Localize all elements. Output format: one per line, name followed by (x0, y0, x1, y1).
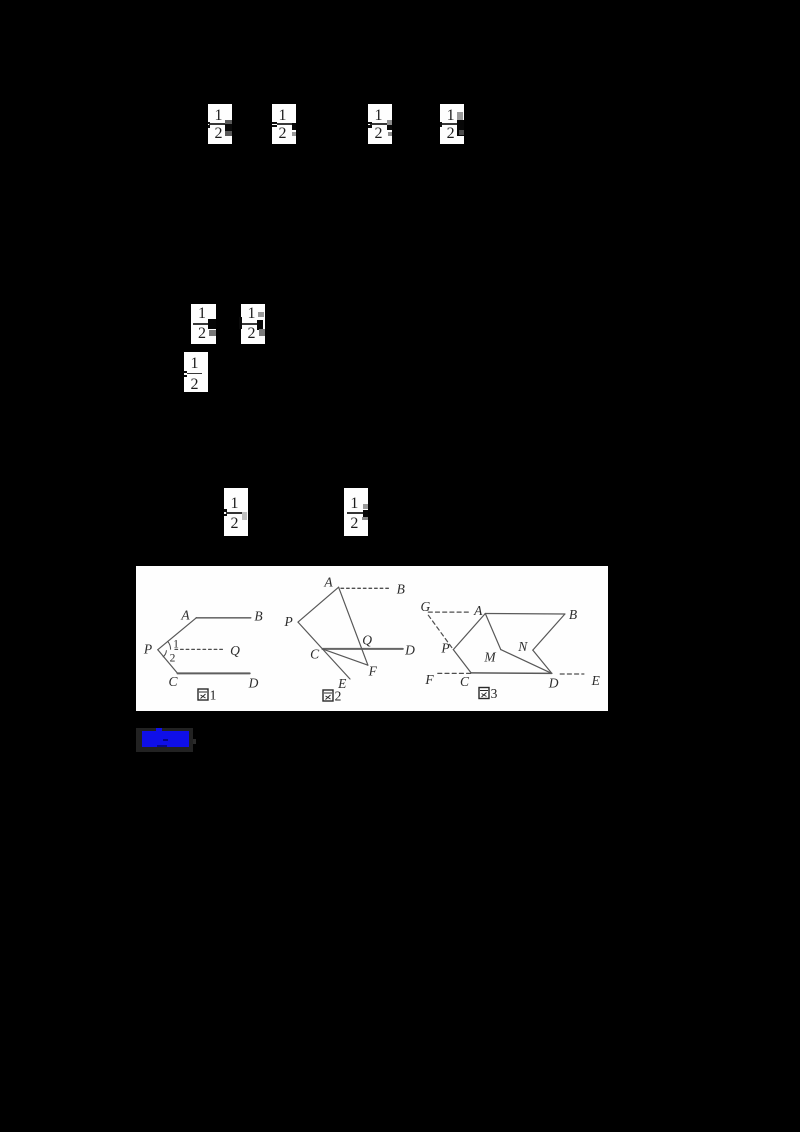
svg-text:F: F (424, 672, 434, 687)
fraction 1/2 box 2 (row 1) (272, 104, 296, 144)
fraction 1/2 box C (row 2, lower) (184, 352, 208, 393)
fig3 line A-M (485, 614, 501, 650)
fig3 line A-B (485, 613, 565, 616)
fig2 dashed A-B (341, 587, 391, 589)
glyph fragment right of box A (208, 319, 216, 329)
fraction 1/2 box 1 (row 1) (208, 104, 232, 144)
white figure panel (136, 566, 608, 711)
grey patch right of bar box D (242, 512, 247, 520)
equals fragment on box 3 left edge (368, 122, 372, 124)
svg-text:D: D (548, 676, 559, 691)
fig1 line A-P (158, 618, 197, 650)
fig2 line C-F (322, 649, 368, 665)
svg-text:P: P (283, 614, 292, 629)
fraction 1/2 box D (row 3) (224, 488, 248, 536)
equals fragment on box D left edge (224, 509, 227, 512)
svg-text:G: G (421, 599, 431, 614)
fig2 line C-E (322, 649, 350, 679)
fig2 line C-D (322, 648, 402, 650)
svg-text:B: B (254, 609, 262, 624)
glyph fragments right of box 4 (457, 112, 463, 120)
fig2 line A-P (298, 587, 339, 622)
svg-text:C: C (310, 647, 320, 662)
fig3 dashed D-E (560, 673, 584, 675)
svg-text:A: A (473, 603, 483, 618)
fig3 line M-D (501, 650, 552, 674)
equals fragment on box C left edge (184, 371, 187, 373)
svg-text:C: C (460, 674, 470, 689)
fig1 angle arc 1 at P (168, 641, 171, 649)
svg-text:C: C (168, 674, 178, 689)
svg-text:Q: Q (362, 633, 372, 648)
glyph fragment left of box B (239, 317, 242, 329)
svg-text:P: P (143, 642, 152, 657)
fig3 dashed G-P (428, 615, 453, 649)
svg-text:D: D (248, 676, 259, 691)
fraction 1/2 box 3 (row 1) (368, 104, 392, 144)
svg-text:A: A (180, 608, 190, 623)
fraction 1/2 box E (row 3) (344, 488, 368, 536)
svg-text:1: 1 (173, 639, 179, 651)
glyph fragment right of box 1 (225, 120, 232, 136)
svg-text:B: B (569, 607, 577, 622)
fig2 line P-C (298, 622, 322, 649)
fig1 angle arc 2 at P (163, 651, 166, 657)
equals fragment on box 2 left edge (272, 122, 277, 124)
fig1 line C-D (178, 672, 250, 674)
svg-text:1: 1 (210, 688, 217, 703)
fig2 line A-F (339, 587, 368, 665)
fig3 caption 图3 (479, 686, 498, 701)
fig3 line notch-D (533, 650, 552, 673)
fraction 1/2 box 4 (row 1) (440, 104, 464, 144)
glyph fragment right of box 2 (292, 123, 296, 131)
fig1 line P-C (158, 650, 178, 674)
glyph fragments right of box E (363, 504, 368, 509)
fig1 dashed P-Q (175, 648, 225, 650)
svg-text:2: 2 (170, 653, 176, 665)
svg-text:D: D (404, 643, 415, 658)
svg-text:Q: Q (230, 643, 240, 658)
glyph fragment right of box 3 (387, 120, 392, 125)
glyph fragments right of box B (258, 312, 264, 317)
equals fragment left of box 1 (208, 122, 210, 124)
fig2 caption 图2 (323, 689, 341, 704)
fig1 caption 图1 (198, 688, 216, 703)
svg-text:3: 3 (491, 686, 498, 701)
fig3 dashed F-C (438, 672, 471, 674)
fig3 line P-C (453, 650, 471, 673)
svg-text:2: 2 (335, 689, 342, 704)
svg-text:B: B (397, 582, 405, 597)
svg-text:E: E (591, 673, 601, 688)
fraction 1/2 box B (row 2) (241, 304, 265, 344)
svg-text:P: P (440, 641, 449, 656)
blue highlighted label on dark grey chip (136, 728, 193, 752)
fraction 1/2 box A (row 2) (191, 304, 216, 344)
svg-text:A: A (323, 575, 333, 590)
svg-text:F: F (368, 664, 378, 679)
equals fragment left of box 4 (440, 122, 442, 127)
svg-text:M: M (483, 650, 496, 665)
fig3 line B-notch (533, 614, 565, 650)
fig3 dashed G-A (428, 611, 471, 613)
fig3 line A-P (453, 614, 485, 650)
svg-text:N: N (517, 639, 528, 654)
fig3 line C-D (471, 672, 552, 675)
fig1 line A-B (196, 617, 250, 619)
